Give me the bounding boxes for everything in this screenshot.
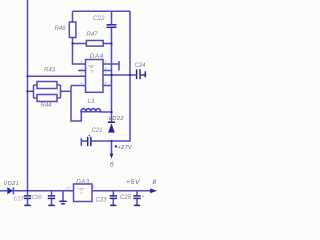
svg-text:5: 5 (105, 60, 107, 64)
wire DA4 pin 3 long from left bus (28, 75, 86, 77)
svg-text:R47: R47 (87, 32, 99, 38)
diode VD22 (108, 123, 115, 132)
wire +27V down arrow (111, 141, 113, 156)
capacitor C22 plates (107, 24, 117, 26)
capacitor C20 plates and ground (48, 195, 55, 197)
wire left bracket of R43/R44 (33, 85, 35, 98)
resistor R44 (37, 95, 57, 102)
svg-text:*5Г: *5Г (88, 64, 95, 69)
wire DA4 right pin 1 with tap bar (103, 63, 119, 65)
capacitor C23 leads (112, 191, 114, 196)
svg-text:R46: R46 (55, 26, 67, 32)
wire R47 right to C22 line (103, 43, 111, 45)
wire VD21 input (0, 190, 7, 192)
wire DA4 pin 2 stub (78, 70, 86, 72)
inductor L3 coil (81, 109, 101, 112)
wire coil out to VD22 node (101, 111, 112, 113)
capacitor C17 leads (27, 191, 29, 196)
resistor R43 (37, 82, 57, 89)
svg-text:VD21: VD21 (4, 181, 20, 187)
svg-text:3: 3 (81, 72, 83, 76)
svg-text:DA3: DA3 (76, 179, 89, 186)
svg-text:C21: C21 (92, 128, 103, 134)
capacitor C23 plates and ground (110, 195, 117, 197)
wire node to R47 left (73, 43, 87, 45)
svg-text:+5V: +5V (126, 179, 140, 186)
svg-text:+27V: +27V (118, 145, 133, 151)
arrow to terminal b (110, 154, 114, 159)
wire DA4 right pin 3 to C24 (103, 74, 136, 76)
svg-text:17: 17 (66, 186, 71, 191)
wire right bracket of R43/R44 (57, 84, 61, 86)
svg-text:C17: C17 (14, 196, 25, 202)
resistor R47 (86, 41, 103, 47)
capacitor C24 plates (136, 69, 138, 79)
capacitor C17 plates and ground (24, 195, 31, 197)
wire DA4 bottom-left node down and to coil (71, 86, 81, 122)
svg-text:C23: C23 (96, 197, 108, 203)
capacitor C20 leads (51, 191, 53, 196)
svg-text:6: 6 (105, 67, 107, 71)
capacitor C21 plates (87, 137, 89, 146)
wire main left vertical bus (27, 0, 29, 191)
junction node dots (26, 75, 28, 77)
wire R46 top lead (72, 11, 74, 22)
wire DA4 pin 4 to下 node (71, 85, 86, 87)
svg-text:8: 8 (105, 82, 107, 86)
capacitor C21 left chassis bar (80, 138, 82, 146)
op-amp U= voltage regulator DA3 box (74, 184, 93, 202)
wire R46 bottom lead to node (72, 38, 74, 44)
svg-text:C22: C22 (93, 16, 105, 22)
wire node down to DA4 pin 1 (73, 44, 86, 65)
svg-text:2: 2 (80, 67, 83, 71)
resistor R46 (69, 22, 76, 38)
capacitor C25 plates and ground (133, 195, 140, 197)
svg-text:R43: R43 (44, 68, 56, 74)
wire left bus to parallel resistors (28, 90, 34, 92)
svg-text:DA4: DA4 (90, 53, 104, 60)
op-amp U= voltage regulator DA4 box (86, 60, 104, 93)
svg-text:8: 8 (153, 179, 157, 186)
svg-text:C24: C24 (135, 63, 147, 69)
svg-text:R44: R44 (41, 103, 53, 109)
diode VD21 (7, 187, 13, 194)
wire DA4 right pin 2 stub (103, 70, 112, 72)
svg-text:VD22: VD22 (108, 116, 124, 122)
wire right main vertical (112, 11, 131, 141)
capacitor C25 leads (136, 191, 138, 196)
wire bracket to DA4 lower node (61, 90, 72, 92)
arrow +5V output (150, 188, 157, 193)
ground bars (59, 200, 66, 202)
svg-text:C20: C20 (32, 195, 42, 201)
ground chassis stub (62, 191, 64, 201)
svg-text:7: 7 (105, 71, 107, 75)
svg-text:1: 1 (81, 60, 83, 64)
svg-text:4: 4 (81, 82, 83, 86)
svg-text:+: + (88, 133, 91, 139)
svg-text:C25: C25 (120, 195, 132, 201)
wire DA3 output (92, 190, 151, 192)
svg-text:б: б (110, 162, 114, 169)
wire DA4 right pin 4 stub (103, 85, 112, 87)
wire top horizontal (73, 10, 131, 12)
wire C22 branch vertical (111, 11, 113, 24)
svg-text:L3: L3 (88, 99, 95, 105)
